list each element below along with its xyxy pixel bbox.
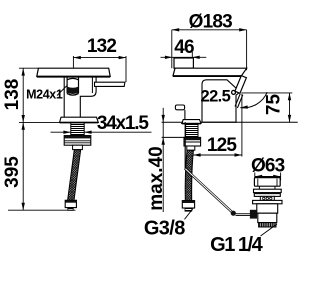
nut side: [184, 137, 201, 146]
spout (side view box): [174, 58, 193, 68]
hose end fitting: [65, 200, 76, 207]
svg-text:34x1.5: 34x1.5: [97, 113, 150, 134]
hose end fitting side: [182, 201, 194, 208]
dimension 46: [161, 37, 207, 59]
svg-text:138: 138: [2, 79, 23, 111]
shank side: [186, 124, 198, 137]
label G3/8: [144, 209, 193, 240]
drain neck with screws: [260, 196, 274, 200]
flexible hose (front): [68, 150, 81, 201]
rotation arc with arrow: [240, 92, 267, 108]
base flange: [60, 117, 99, 122]
hose connector side: [187, 146, 195, 150]
linkage block: [250, 210, 257, 219]
dimension 34x1.5: [51, 113, 152, 134]
base plate (spout plate) front view: [37, 68, 110, 76]
dimension 75: [241, 93, 292, 122]
aerator M24x1: [67, 78, 78, 96]
svg-text:max.40: max.40: [146, 146, 167, 210]
drain disc 2: [254, 194, 280, 197]
dimension max.40: [146, 108, 167, 212]
base flange side: [182, 120, 201, 124]
svg-text:M24x1: M24x1: [26, 87, 63, 101]
rod ball joint: [231, 211, 236, 216]
lever handle (front view, pointing right): [95, 82, 125, 86]
dimension 132: [73, 36, 126, 82]
drain disc 1: [254, 189, 282, 192]
mounting nut: [64, 136, 91, 146]
dimension O183: [172, 11, 247, 70]
faucet body upper block: [64, 76, 96, 117]
dimension 125: [193, 94, 242, 157]
drain body: [257, 204, 278, 213]
svg-text:395: 395: [2, 156, 23, 188]
cartridge neck line: [91, 77, 93, 93]
drain plug head: [254, 178, 280, 187]
svg-text:46: 46: [174, 37, 194, 58]
plug stem: [258, 186, 260, 189]
label M24x1: [26, 86, 67, 102]
label G1 1/4: [210, 224, 277, 256]
hose connector: [73, 145, 83, 149]
threaded shank 34x1.5: [71, 123, 84, 136]
deck (mounting surface) lines: [162, 121, 183, 123]
pop-up knob: [175, 105, 184, 110]
svg-text:G1 1/4: G1 1/4: [210, 234, 263, 256]
svg-text:Ø63: Ø63: [251, 155, 285, 176]
plate bottom thick edge: [37, 76, 110, 78]
svg-text:22.5°: 22.5°: [201, 88, 237, 106]
pop-up rod vertical: [184, 122, 186, 169]
body side view: [202, 80, 240, 122]
dimension O63: [251, 155, 285, 180]
pop-up rod diagonal: [185, 169, 233, 213]
lever 22.5deg: [235, 76, 247, 94]
tailpiece thread band: [259, 223, 276, 227]
flexible hose (side): [185, 150, 193, 200]
drain flange: [253, 200, 282, 203]
dimension 395: [2, 122, 76, 210]
dimension 138: [2, 68, 38, 122]
svg-text:G3/8: G3/8: [144, 218, 185, 240]
lever alternate position ticks: [237, 95, 242, 108]
svg-text:75: 75: [264, 94, 285, 116]
horizontal rod to drain: [236, 213, 251, 216]
svg-text:132: 132: [87, 36, 117, 57]
base plate side view: [173, 68, 247, 76]
drain tailpiece: [258, 213, 277, 222]
svg-text:Ø183: Ø183: [189, 11, 233, 32]
svg-text:125: 125: [207, 135, 238, 156]
